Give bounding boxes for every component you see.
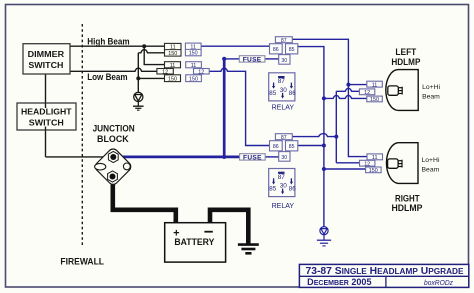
svg-text:SWITCH: SWITCH: [29, 118, 64, 128]
node feed junction upper: [222, 57, 226, 61]
svg-text:86: 86: [273, 47, 279, 53]
wire 12 bus to right lamp 12: [336, 162, 359, 164]
wire trigger 11 to relay 1 coil 86 (blue): [201, 45, 269, 47]
relay U1: [269, 73, 296, 101]
node relay2 87 junction: [334, 135, 338, 139]
svg-text:11: 11: [170, 45, 176, 51]
svg-text:86: 86: [273, 144, 279, 150]
wire high beam: [70, 45, 165, 47]
svg-text:Lo+Hi: Lo+Hi: [422, 157, 440, 164]
dimmer switch DS1: [23, 44, 70, 74]
svg-text:Beam: Beam: [422, 93, 440, 100]
svg-text:150: 150: [168, 77, 177, 83]
wire through headlight switch: [45, 103, 47, 108]
wire high beam riser to 11 (lower connector): [144, 46, 164, 64]
svg-text:87: 87: [278, 174, 286, 181]
wire ground to 150 (lower connector): [138, 77, 164, 79]
svg-text:BATTERY: BATTERY: [174, 237, 215, 248]
svg-text:High Beam: High Beam: [87, 37, 129, 47]
ground chassis symbol (black): [133, 92, 144, 110]
ground chassis symbol (blue): [317, 227, 331, 246]
svg-text:85: 85: [269, 90, 276, 97]
svg-text:HDLMP: HDLMP: [392, 203, 423, 213]
wire headlight switch to junction block: [46, 156, 114, 158]
svg-text:HEADLIGHT: HEADLIGHT: [21, 107, 72, 117]
node 87 bus to left lamp 11: [346, 83, 350, 87]
left headlamp L1: [386, 70, 418, 111]
wire 12 bus vertical: [335, 91, 337, 163]
wire fuse 2 to relay socket 30: [265, 156, 279, 158]
wire dimmer to headlight switch: [45, 74, 47, 157]
connector C1 harness side (blue) pins 11/150: [185, 43, 201, 57]
svg-text:RELAY: RELAY: [272, 201, 295, 210]
svg-text:87: 87: [278, 78, 286, 85]
svg-text:LEFT: LEFT: [395, 47, 416, 57]
svg-text:85: 85: [289, 47, 295, 53]
svg-text:87: 87: [281, 135, 287, 141]
svg-text:11: 11: [372, 82, 378, 88]
svg-text:85: 85: [269, 186, 276, 193]
svg-text:30: 30: [281, 155, 287, 161]
svg-text:150: 150: [189, 51, 198, 57]
svg-text:Lo+Hi: Lo+Hi: [422, 84, 440, 91]
svg-text:boxRODz: boxRODz: [424, 280, 453, 287]
junction block JB: [93, 147, 132, 186]
wire ground bus to left lamp 150 (hops over two busses): [324, 95, 367, 98]
wire ground to 150 (upper connector, hop over riser): [138, 50, 164, 53]
svg-text:86: 86: [289, 90, 296, 97]
svg-text:Beam: Beam: [422, 167, 440, 174]
wire trigger 12 to relay 2 coil 86 (blue, hop over feed riser): [209, 68, 269, 145]
wire ground bus to right lamp 150: [324, 168, 366, 170]
right lamp connector pins 11/12/150: [360, 154, 383, 174]
wire to left lamp 11: [348, 84, 366, 86]
fuse F2: [240, 154, 266, 162]
node ground bus lamp2 150: [322, 167, 326, 171]
wire 12 bus to left lamp 12 (hop over 11 bus): [336, 88, 359, 91]
connector C2 vehicle side (black) pins 11/12/150: [157, 62, 181, 83]
relay U2: [269, 169, 296, 197]
svg-text:JUNCTION: JUNCTION: [93, 124, 135, 134]
wire ground riser: [137, 53, 139, 93]
wire low beam (hop over ground riser): [70, 68, 157, 71]
svg-text:87: 87: [281, 38, 287, 44]
svg-text:FUSE: FUSE: [243, 56, 262, 63]
battery negative thick wire: [210, 210, 248, 244]
wire relay1 87 output bus: [292, 39, 367, 156]
wire ground bus from relay1 85: [298, 47, 324, 227]
svg-text:150: 150: [168, 51, 177, 57]
junction block feed wire (blue, thick): [113, 156, 239, 159]
wire feed riser (blue, thick): [223, 59, 226, 157]
svg-text:HDLMP: HDLMP: [391, 57, 420, 67]
svg-text:30: 30: [281, 58, 287, 64]
wire relay2 87 output (hop over ground bus): [292, 134, 336, 137]
right headlamp L2: [386, 143, 418, 184]
svg-text:86: 86: [289, 186, 296, 193]
node ground bus relay2 85: [322, 144, 326, 148]
svg-text:85: 85: [289, 144, 295, 150]
relay socket RS2 pins 87/86/85/30: [270, 134, 298, 162]
connector C1 vehicle side (black) pins 11/150: [165, 43, 182, 57]
svg-text:73-87 SINGLE HEADLAMP UPGRADE: 73-87 SINGLE HEADLAMP UPGRADE: [306, 266, 465, 277]
svg-text:30: 30: [280, 87, 288, 94]
connector C2 harness side (blue) pins 11/12/150: [186, 62, 210, 83]
relay socket RS1 pins 87/86/85/30: [270, 37, 298, 64]
title block: [299, 264, 468, 287]
svg-text:11: 11: [190, 44, 196, 50]
svg-text:FIREWALL: FIREWALL: [60, 257, 104, 267]
node feed junction lower: [222, 155, 226, 159]
svg-text:RIGHT: RIGHT: [395, 194, 420, 204]
svg-text:30: 30: [280, 183, 288, 190]
svg-text:150: 150: [370, 97, 379, 103]
wire relay2 85 to ground bus: [298, 145, 324, 147]
wire feed to fuse 1: [224, 58, 239, 60]
fuse F1: [239, 56, 265, 64]
node ground junction: [136, 76, 140, 80]
svg-text:SWITCH: SWITCH: [28, 60, 63, 70]
node ground bus lamp1 150: [322, 96, 326, 100]
earth ground (battery negative): [238, 245, 259, 254]
battery positive thick wire: [113, 176, 176, 223]
svg-text:12: 12: [364, 90, 370, 96]
svg-text:Low Beam: Low Beam: [87, 72, 127, 82]
firewall dashed line: [81, 24, 83, 246]
svg-text:BLOCK: BLOCK: [97, 134, 129, 144]
wire fuse 1 to relay socket 30: [265, 58, 279, 60]
svg-text:150: 150: [189, 77, 198, 83]
svg-text:150: 150: [369, 168, 378, 174]
left lamp connector pins 11/12/150: [359, 81, 382, 103]
svg-text:RELAY: RELAY: [272, 103, 295, 112]
battery B1: [165, 223, 226, 262]
headlight switch S1: [17, 103, 76, 130]
node high-beam junction: [142, 44, 146, 48]
svg-text:FUSE: FUSE: [243, 154, 262, 161]
svg-text:12: 12: [364, 161, 370, 167]
svg-text:DIMMER: DIMMER: [28, 49, 65, 59]
